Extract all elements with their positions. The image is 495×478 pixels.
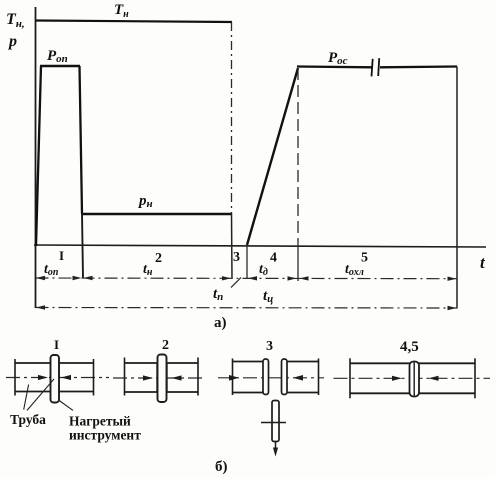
svg-text:I: I xyxy=(54,337,59,352)
svg-text:3: 3 xyxy=(266,339,273,354)
svg-text:2: 2 xyxy=(155,251,162,266)
svg-text:3: 3 xyxy=(233,250,240,265)
svg-text:5: 5 xyxy=(361,251,368,266)
svg-text:4,5: 4,5 xyxy=(400,339,419,355)
svg-text:2: 2 xyxy=(162,338,169,353)
svg-text:инструмент: инструмент xyxy=(69,428,141,443)
svg-text:Труба: Труба xyxy=(10,412,46,427)
svg-text:I: I xyxy=(59,248,64,263)
svg-text:4: 4 xyxy=(270,251,277,266)
svg-text:Нагретый: Нагретый xyxy=(69,414,131,429)
svg-text:б): б) xyxy=(215,459,228,475)
svg-text:p: p xyxy=(7,33,17,50)
svg-text:а): а) xyxy=(214,315,227,331)
